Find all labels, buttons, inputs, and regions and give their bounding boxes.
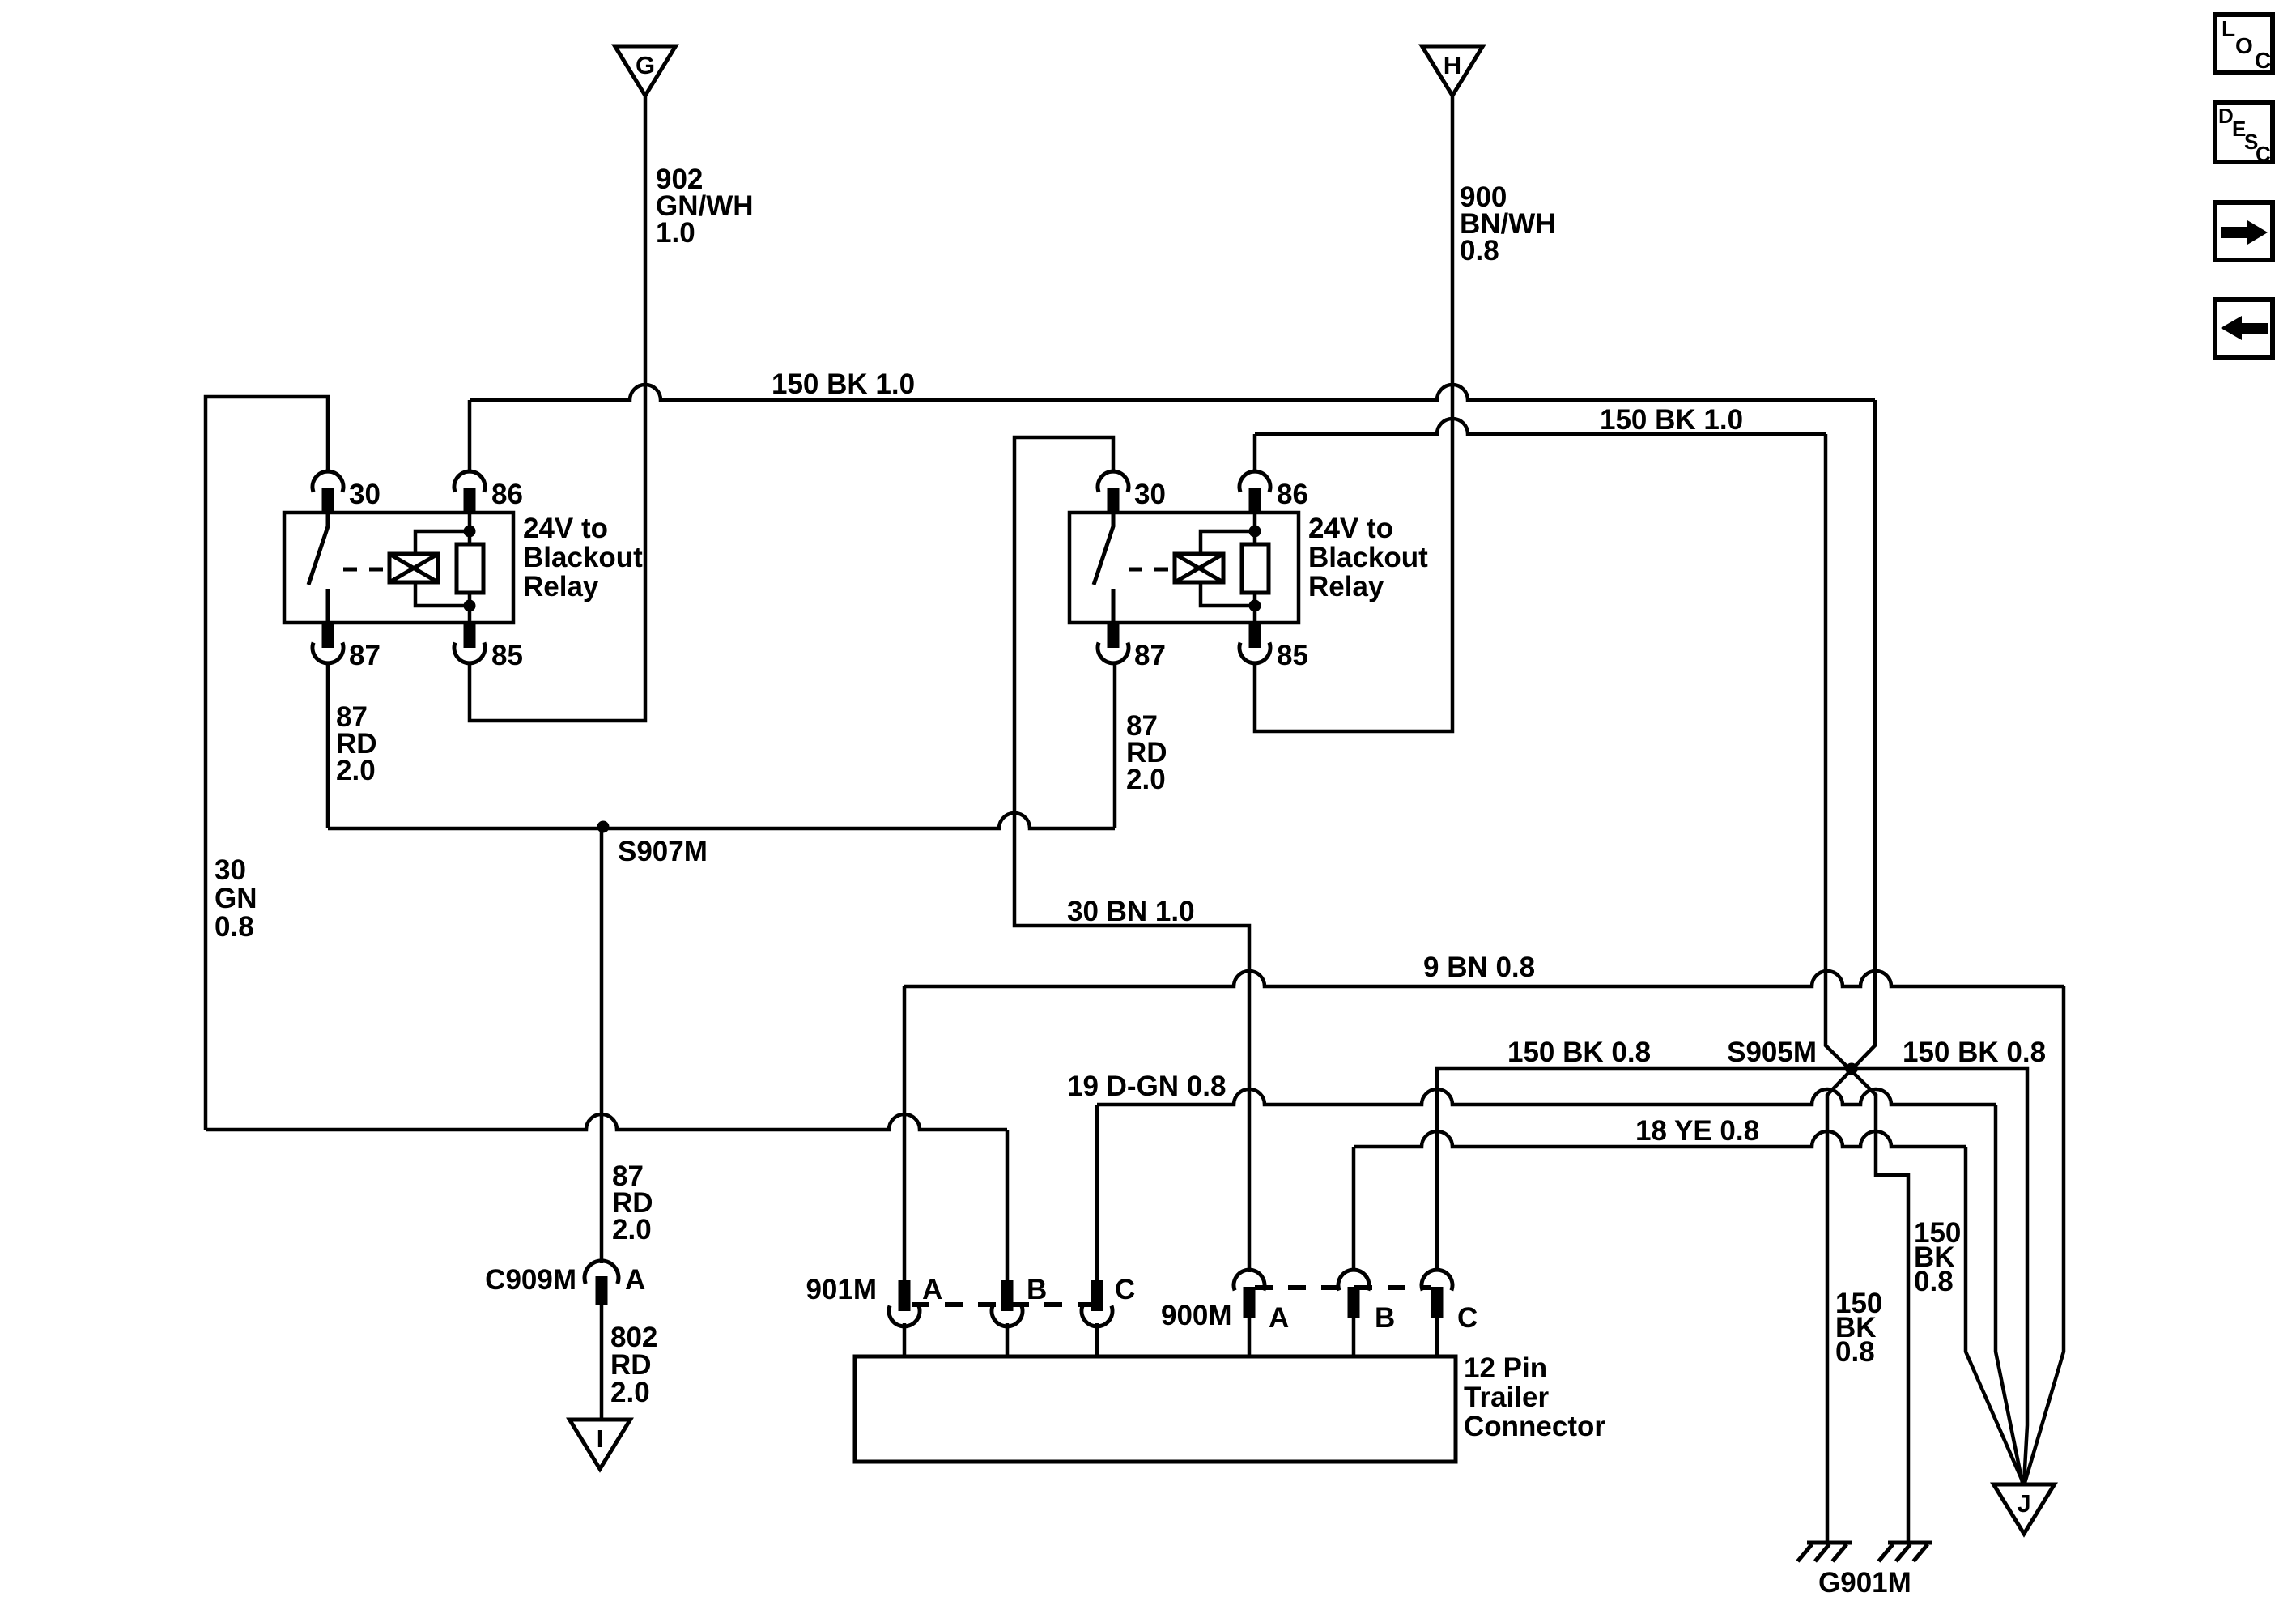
junction dot K2 coil bottom	[1249, 600, 1261, 612]
wire S907M down to C909M	[600, 828, 604, 1263]
wire 900 BN/WH from H to relay2 pin85	[1255, 96, 1452, 731]
page connector triangle I	[570, 1420, 631, 1469]
connector 900M terminal B	[1338, 1270, 1369, 1290]
wire 150 BK 1.0 upper rail	[470, 385, 1875, 400]
connector 900M terminal A	[1234, 1270, 1265, 1290]
wire 9 BN 0.8	[904, 971, 2064, 986]
svg-text:G: G	[636, 51, 655, 79]
svg-text:S907M: S907M	[618, 836, 708, 867]
svg-text:24V to: 24V to	[1308, 513, 1393, 544]
svg-text:Trailer: Trailer	[1464, 1382, 1549, 1413]
svg-text:C: C	[2255, 48, 2271, 73]
wire drop to 901M pin B	[1006, 1130, 1010, 1282]
junction dot K1 coil top	[464, 526, 476, 538]
svg-text:12 Pin: 12 Pin	[1464, 1352, 1547, 1384]
wire 901M A to trailer connector	[903, 1323, 907, 1358]
ground symbol 2 (G901M)	[1888, 1541, 1932, 1545]
svg-text:150 BK 0.8: 150 BK 0.8	[1507, 1037, 1651, 1068]
wire 18 YE 0.8	[1354, 1131, 1966, 1147]
svg-text:2.0: 2.0	[610, 1377, 650, 1408]
wire 9 BN drop to 901M pin A	[903, 986, 907, 1282]
connector 900M terminal C	[1422, 1270, 1452, 1290]
svg-text:1.0: 1.0	[656, 217, 695, 249]
svg-text:2.0: 2.0	[1126, 764, 1166, 795]
relay K1 pin 87 terminal	[322, 622, 334, 648]
svg-text:0.8: 0.8	[215, 911, 254, 943]
ground symbol 1 (G901M)	[1807, 1541, 1852, 1545]
wire 150 BK upper rail right leg (crosses at S905M to ground G901M)	[1827, 400, 1875, 1543]
page connector triangle G	[615, 46, 676, 96]
wire relay1 pin87 down	[326, 662, 330, 828]
svg-text:Relay: Relay	[523, 571, 599, 602]
wire 18 YE drop to 900M pin B	[1352, 1147, 1356, 1271]
relay K1 pin 86 terminal	[454, 471, 485, 492]
svg-text:C: C	[1457, 1302, 1478, 1334]
svg-text:S905M: S905M	[1727, 1037, 1817, 1068]
svg-text:150 BK 0.8: 150 BK 0.8	[1903, 1037, 2046, 1068]
relay K2 pin 86 terminal	[1239, 471, 1270, 492]
legend LOC box	[2215, 15, 2273, 73]
connector 901M terminal A	[899, 1280, 911, 1311]
svg-text:Relay: Relay	[1308, 571, 1384, 602]
relay K1 armature box	[389, 554, 438, 582]
relay K2 coil	[1242, 544, 1269, 593]
svg-text:A: A	[922, 1274, 942, 1305]
wire relay2 pin87 down	[1113, 662, 1117, 828]
wire 30 GN 0.8 run to 901M pin B	[206, 1114, 1007, 1130]
svg-text:B: B	[1027, 1274, 1047, 1305]
wire 19 D-GN drop from 901M pin C	[1095, 1105, 1099, 1282]
svg-text:150 BK 1.0: 150 BK 1.0	[1600, 404, 1743, 436]
wire riser relay2 pin86 to rail	[1253, 434, 1257, 473]
svg-text:901M: 901M	[806, 1274, 877, 1305]
wire riser relay1 pin86 to rail	[468, 400, 472, 473]
svg-text:A: A	[1269, 1302, 1289, 1334]
connector 901M dashed link	[912, 1302, 1093, 1307]
legend DESC box	[2215, 103, 2273, 162]
junction dot K1 coil bottom	[464, 600, 476, 612]
svg-text:30: 30	[349, 479, 381, 510]
svg-text:C: C	[1115, 1274, 1135, 1305]
svg-text:B: B	[1375, 1302, 1395, 1334]
svg-text:150 BK 1.0: 150 BK 1.0	[772, 368, 915, 400]
wire 900M B to trailer connector	[1352, 1318, 1356, 1358]
wire 19 D-GN right leg to J	[1996, 1105, 2022, 1483]
svg-text:Blackout: Blackout	[1308, 542, 1428, 573]
wire 9 BN right leg to J	[2025, 986, 2064, 1483]
wire 30 GN 0.8 feed to relay1 pin30	[206, 397, 328, 1130]
page connector triangle J	[1994, 1484, 2055, 1534]
relay K2 switch	[1094, 513, 1113, 585]
svg-text:0.8: 0.8	[1914, 1266, 1954, 1297]
svg-text:0.8: 0.8	[1835, 1336, 1875, 1368]
svg-text:2.0: 2.0	[336, 755, 376, 786]
connector 901M terminal C	[1091, 1280, 1103, 1311]
svg-text:85: 85	[491, 640, 523, 671]
svg-text:87: 87	[1134, 640, 1166, 671]
relay K1 pin 85 terminal	[464, 622, 476, 648]
svg-text:C: C	[2256, 142, 2271, 166]
wire 901M B to trailer connector	[1006, 1323, 1010, 1358]
legend next-page arrow box	[2215, 202, 2273, 260]
wire 150 BK 0.8 through S905M	[1437, 1068, 2027, 1484]
svg-text:30: 30	[215, 854, 246, 886]
svg-text:I: I	[597, 1424, 604, 1453]
relay K2 pin 30 terminal	[1098, 471, 1129, 492]
svg-text:Connector: Connector	[1464, 1411, 1605, 1442]
svg-text:85: 85	[1277, 640, 1308, 671]
relay K1 coil wire	[468, 513, 472, 544]
relay K1 box	[284, 513, 513, 623]
wire 900M C to trailer connector	[1435, 1318, 1439, 1358]
wire S907M tie bar	[328, 813, 1115, 828]
legend previous-page arrow box	[2215, 300, 2273, 357]
svg-text:A: A	[625, 1264, 645, 1296]
relay K1 armature brackets	[415, 531, 470, 554]
page connector triangle H	[1422, 46, 1483, 96]
wire 150 BK 1.0 lower rail	[1255, 419, 1826, 434]
svg-text:2.0: 2.0	[612, 1214, 652, 1245]
svg-text:O: O	[2235, 33, 2253, 58]
relay K1 switch	[308, 513, 328, 585]
relay K2 pin 85 terminal	[1249, 622, 1261, 648]
relay K2 armature dashes	[1129, 568, 1172, 572]
svg-text:19 D-GN 0.8: 19 D-GN 0.8	[1067, 1071, 1226, 1102]
svg-text:9 BN 0.8: 9 BN 0.8	[1423, 952, 1535, 983]
relay K2 armature box	[1175, 554, 1223, 582]
relay K2 pin 87 terminal	[1108, 622, 1120, 648]
svg-text:86: 86	[1277, 479, 1308, 510]
junction dot K2 coil top	[1249, 526, 1261, 538]
wire 900M A to trailer connector	[1248, 1318, 1252, 1358]
svg-text:30: 30	[1134, 479, 1166, 510]
12 Pin Trailer Connector box	[855, 1356, 1456, 1462]
wire 150 BK lower rail right leg (crosses at S905M, jogs, to ground G901M)	[1826, 434, 1908, 1543]
relay K2 armature brackets	[1201, 531, 1255, 554]
relay K2 coil wire	[1253, 513, 1257, 544]
svg-text:J: J	[2017, 1489, 2030, 1518]
connector 900M dashed link	[1255, 1285, 1431, 1290]
svg-text:Blackout: Blackout	[523, 542, 643, 573]
svg-text:18 YE 0.8: 18 YE 0.8	[1635, 1115, 1759, 1147]
svg-text:D: D	[2218, 104, 2234, 128]
svg-text:GN: GN	[215, 883, 257, 914]
relay K1 armature dashes	[343, 568, 387, 572]
relay K2 box	[1069, 513, 1299, 623]
svg-text:30 BN 1.0: 30 BN 1.0	[1067, 896, 1195, 927]
relay K1 coil	[457, 544, 483, 593]
wire 30 BN 1.0 from relay2 pin30	[1014, 437, 1249, 1272]
junction dot S907M	[597, 821, 610, 833]
svg-text:900M: 900M	[1161, 1300, 1232, 1331]
svg-text:G901M: G901M	[1818, 1567, 1911, 1599]
svg-text:L: L	[2222, 16, 2235, 41]
connector C909M terminal	[585, 1261, 619, 1284]
connector 901M terminal B	[1001, 1280, 1014, 1311]
wire 802 RD 2.0	[600, 1305, 604, 1420]
svg-text:H: H	[1444, 51, 1461, 79]
wire 902 GN/WH from G to relay1 pin85	[470, 96, 645, 721]
wire 18 YE right leg to J	[1966, 1147, 2023, 1483]
svg-text:C909M: C909M	[485, 1264, 576, 1296]
svg-text:0.8: 0.8	[1460, 235, 1499, 266]
junction dot S905M	[1846, 1063, 1858, 1075]
wire 901M C to trailer connector	[1095, 1323, 1099, 1358]
svg-text:24V to: 24V to	[523, 513, 608, 544]
relay K1 pin 30 terminal	[313, 471, 343, 492]
svg-text:87: 87	[349, 640, 381, 671]
svg-text:86: 86	[491, 479, 523, 510]
wire 19 D-GN 0.8	[1097, 1089, 1996, 1105]
